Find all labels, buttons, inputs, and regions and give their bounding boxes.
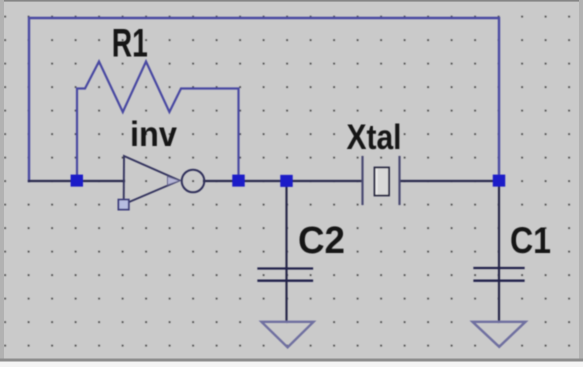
resistor R1 [77,62,239,182]
node junction left of inverter [71,175,83,187]
wire inverter output to crystal [204,180,362,182]
wire node C2 down [285,181,287,322]
capacitor C2 [259,269,313,281]
wire crystal to node C1 [400,180,499,182]
inverter U1 triangle [124,156,180,204]
inverter U1 apex wedge [168,177,180,186]
capacitor C1 [475,268,524,281]
svg-text:inv: inv [130,115,177,154]
svg-text:R1: R1 [112,22,148,66]
node junction C1 [493,175,505,187]
node junction C2 [280,175,292,187]
svg-text:Xtal: Xtal [347,117,402,157]
ground under C2 [262,322,314,348]
wire main left segment [29,180,124,182]
wire node C1 down [498,181,500,322]
crystal Xtal right plate [398,157,400,204]
inverter U1 output bubble [182,170,205,193]
svg-text:C2: C2 [298,220,345,262]
crystal Xtal left plate [361,157,363,204]
inverter U1 input pin square [118,200,128,210]
node junction right of inverter [232,175,244,187]
wire feedback loop top [29,18,499,181]
crystal Xtal body [375,168,390,196]
svg-text:C1: C1 [510,219,551,261]
ground under C1 [473,322,526,347]
